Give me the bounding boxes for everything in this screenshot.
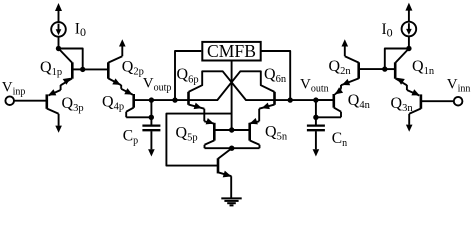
label Q5n xyxy=(265,124,288,143)
wire Voutn rail xyxy=(275,99,334,101)
svg-text:CMFB: CMFB xyxy=(207,41,256,61)
block CMFB xyxy=(202,41,260,61)
transistor Q4n xyxy=(316,94,341,117)
node Voutn at Cn branch xyxy=(313,97,318,102)
transistor Q4p xyxy=(126,94,151,117)
label Q2n xyxy=(329,58,352,77)
transistor Q3p xyxy=(14,89,62,133)
wire Q2p emitter to Q4p xyxy=(121,85,132,95)
wire Q6p collector cross-couple xyxy=(189,71,275,100)
label I0 (left) xyxy=(75,21,86,40)
node: left tail node xyxy=(56,46,61,51)
label Q5p xyxy=(176,125,198,144)
node Cp/Q4p junction xyxy=(149,115,154,120)
wire Q1p emitter to Q3p xyxy=(60,85,62,90)
transistor Q7 (tail) xyxy=(218,148,232,197)
capacitor Cp xyxy=(142,126,160,157)
capacitor Cn xyxy=(307,126,325,157)
transistor Q1p xyxy=(59,49,83,86)
transistor Q5p xyxy=(205,123,232,148)
node Voutn at CMFB branch xyxy=(288,97,293,102)
node Voutp at Cp branch xyxy=(149,97,154,102)
transistor Q3n xyxy=(406,89,454,132)
label Q6n xyxy=(264,66,287,85)
label Q6p xyxy=(177,66,199,85)
wire Q6n emitter to Q5n xyxy=(250,109,260,125)
transistor Q6n xyxy=(259,92,274,109)
transistor Q2p xyxy=(83,39,126,85)
wire CMFB to Q5 bases xyxy=(231,61,233,130)
wire Q6p emitter to Q5p xyxy=(204,109,214,125)
label Q4p xyxy=(102,93,124,112)
wire base node to right tail node xyxy=(385,49,409,70)
node: right tail node xyxy=(406,46,411,51)
label Cp xyxy=(123,127,138,146)
current source I0 (right) xyxy=(402,3,417,49)
wire Voutp to Cp xyxy=(150,100,152,124)
label Q3n xyxy=(391,95,414,114)
wire Q6n collector cross-couple xyxy=(189,71,275,100)
label Q1p xyxy=(40,59,62,78)
label I0 (right) xyxy=(382,21,393,40)
label Q1n xyxy=(412,58,435,77)
label Vinn xyxy=(447,77,471,95)
node Q5 bases xyxy=(229,127,234,132)
transistor Q5n xyxy=(232,123,260,148)
label Voutn xyxy=(300,76,329,94)
node: Q1p/Q2p base node xyxy=(80,67,85,72)
label Voutp xyxy=(143,76,172,94)
ground xyxy=(221,198,241,205)
label Q4n xyxy=(348,92,371,111)
wire CMFB net to Q7 base xyxy=(166,114,231,166)
wire Voutp rail xyxy=(151,99,188,101)
wire CMFB left xyxy=(175,51,201,100)
transistor Q6p xyxy=(189,92,205,109)
label Q2p xyxy=(122,58,144,77)
node: Q1n/Q2n base node xyxy=(382,66,387,71)
wire CMFB right xyxy=(261,51,291,100)
node Cn/Q4n junction xyxy=(313,115,318,120)
wire tail-node to Q1p base node xyxy=(59,49,83,70)
wire Q1n emitter to Q3n xyxy=(406,85,408,90)
transistor Q2n xyxy=(341,39,385,85)
node Voutp at CMFB branch xyxy=(172,97,177,102)
transistor Q1n xyxy=(385,49,409,86)
label Q3p xyxy=(62,95,84,114)
wire Voutn to Cn xyxy=(315,100,317,124)
node Q5 emitters / Q7 collector xyxy=(229,146,234,151)
wire Q2n emitter to Q4n xyxy=(335,85,343,94)
label Cn xyxy=(332,130,347,149)
label Vinp xyxy=(2,80,26,98)
terminal Vinn xyxy=(454,97,463,106)
terminal Vinp xyxy=(5,96,14,105)
current source I0 (left) xyxy=(51,3,66,49)
